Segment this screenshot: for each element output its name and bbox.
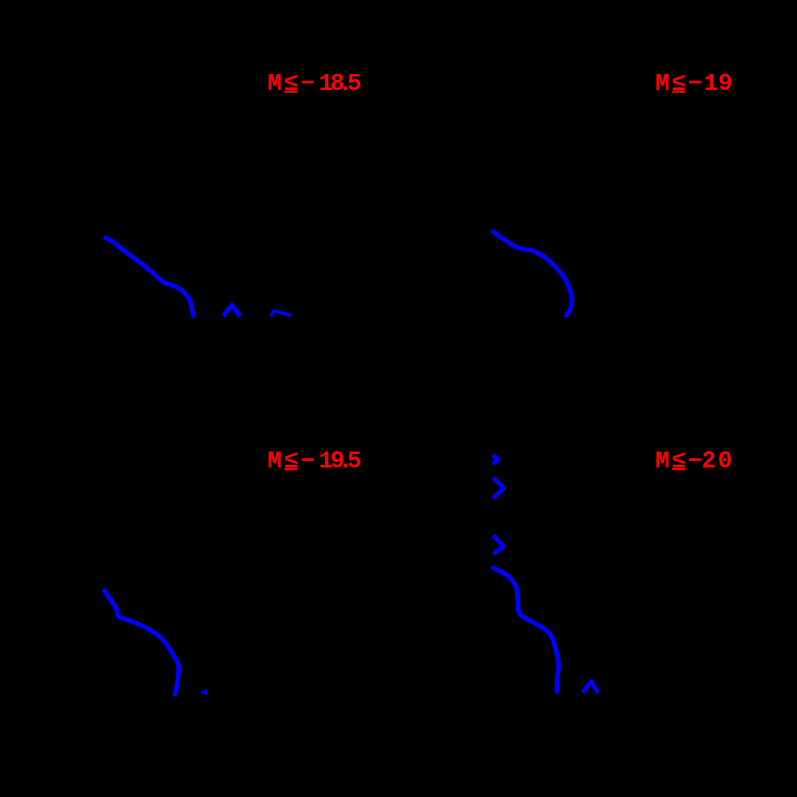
small squiggle mark (top-left panel) bbox=[272, 311, 290, 315]
chevron 1 (bottom-right panel) bbox=[493, 455, 499, 464]
svg-text:M≤−19: M≤−19 bbox=[655, 71, 732, 98]
svg-text:M≤−19.5: M≤−19.5 bbox=[268, 448, 362, 475]
curve: top-left panel correlation function bbox=[106, 238, 194, 316]
curve: bottom-right panel correlation function bbox=[493, 568, 559, 692]
chevron 2 (bottom-right panel) bbox=[493, 478, 504, 499]
svg-text:M≤−18.5: M≤−18.5 bbox=[268, 71, 362, 98]
small dot mark (bottom-left panel) bbox=[203, 691, 207, 694]
curve: top-right panel correlation function bbox=[493, 232, 572, 316]
chevron 3 (bottom-right panel) bbox=[493, 535, 503, 554]
caret mark (top-left panel) bbox=[224, 305, 241, 316]
caret mark (bottom-right panel) bbox=[583, 681, 599, 693]
svg-text:M≤−20: M≤−20 bbox=[655, 448, 732, 475]
curve: bottom-left panel correlation function bbox=[104, 591, 179, 695]
